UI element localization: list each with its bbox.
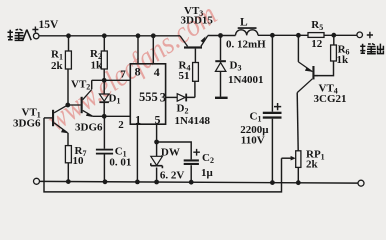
node pin4 top <box>151 33 156 38</box>
svg-text:1N4001: 1N4001 <box>228 74 263 86</box>
svg-text:1N4148: 1N4148 <box>175 115 211 127</box>
diode D1 <box>99 93 120 106</box>
svg-text:7: 7 <box>120 68 126 80</box>
wire R4 top lead <box>194 49 196 63</box>
capacitor C3 (0.01) <box>96 146 131 169</box>
diode D3 <box>215 60 263 87</box>
svg-text:L: L <box>240 17 248 29</box>
svg-text:51: 51 <box>179 70 190 82</box>
wire lower feedback rail <box>44 118 282 192</box>
resistor R1 <box>51 49 71 72</box>
wire R2 top lead <box>103 36 105 51</box>
node R6 top <box>331 33 336 38</box>
node R1 top <box>66 33 71 38</box>
svg-text:1k: 1k <box>337 54 350 66</box>
capacitor C2 <box>184 149 214 179</box>
svg-text:D2: D2 <box>177 103 189 116</box>
node VT4 emitter <box>296 33 301 38</box>
node DW gnd <box>154 180 159 185</box>
svg-text:6. 2V: 6. 2V <box>160 170 185 182</box>
svg-text:555: 555 <box>139 90 158 104</box>
diode D2 <box>175 94 211 127</box>
wire RP1 bottom lead <box>297 167 299 182</box>
svg-text:3CG21: 3CG21 <box>314 93 347 105</box>
wire VT4 emitter lead <box>297 35 299 62</box>
node pin1 gnd <box>135 180 140 185</box>
svg-text:10: 10 <box>73 155 85 167</box>
input terminal + <box>33 33 39 39</box>
svg-text:0. 12mH: 0. 12mH <box>226 39 266 51</box>
node R2 top <box>102 33 107 38</box>
node R7 gnd <box>66 179 71 184</box>
label + output <box>367 32 373 38</box>
svg-text:1μ: 1μ <box>201 167 214 179</box>
node pin2 <box>102 114 107 119</box>
wire RP1 wiper <box>282 157 293 159</box>
svg-text:C2: C2 <box>202 152 214 165</box>
svg-text:8: 8 <box>135 65 141 79</box>
resistor R6 <box>331 44 350 67</box>
wire pin2 node <box>93 115 131 117</box>
wire C3 leads <box>103 116 105 182</box>
wire R2 bottom lead <box>103 69 105 80</box>
wire C1 top lead <box>271 35 273 111</box>
wire VT1 emitter lead <box>67 133 69 146</box>
transistor VT2 <box>68 79 103 134</box>
svg-text:110V: 110V <box>241 135 265 147</box>
svg-text:C1: C1 <box>250 111 262 124</box>
svg-text:2k: 2k <box>51 60 64 72</box>
svg-text:D3: D3 <box>230 60 242 73</box>
svg-text:1k: 1k <box>91 59 104 71</box>
wire D1 leads <box>103 80 105 116</box>
wire 555 pin8 <box>137 36 139 64</box>
transistor VT3 <box>180 5 213 49</box>
wire R6 top lead <box>333 35 335 45</box>
wire 555 pin5 <box>156 124 158 142</box>
wire VT1 base <box>44 117 52 119</box>
transistor VT1 <box>13 105 68 133</box>
transistor VT4 <box>297 62 346 105</box>
wire bottom rail <box>40 181 358 183</box>
wire R7 bottom lead <box>67 163 69 182</box>
wire DW zener leads <box>156 142 158 182</box>
zener diode DW <box>151 147 185 182</box>
node DW top <box>154 140 159 145</box>
wire top rail left <box>39 35 180 37</box>
ground bar under D3 <box>215 97 228 99</box>
node C1 top <box>270 33 275 38</box>
wire top rail mid (VT3 emitter to coil) <box>208 35 236 37</box>
node RP1 gnd <box>296 180 301 185</box>
svg-text:4: 4 <box>154 65 160 79</box>
svg-text:3DG6: 3DG6 <box>75 122 103 134</box>
wire R1 top lead <box>68 36 70 51</box>
inductor L <box>226 17 266 51</box>
wire C2 bottom lead <box>190 165 192 182</box>
resistor R4 <box>179 60 199 83</box>
svg-text:12: 12 <box>311 38 323 50</box>
svg-text:DW: DW <box>161 147 180 159</box>
svg-text:R5: R5 <box>311 19 323 32</box>
wire top rail right <box>258 34 357 36</box>
node C1 gnd <box>270 180 275 185</box>
watermark <box>40 0 223 138</box>
resistor R7 <box>65 145 86 167</box>
svg-text:0. 01: 0. 01 <box>109 157 131 169</box>
op-amp U1 555 timer box <box>118 64 166 131</box>
wire VT4 collector to RP1 <box>297 93 298 151</box>
svg-text:3DD15: 3DD15 <box>181 15 214 27</box>
resistor R5 <box>308 19 324 50</box>
wire R1 bottom lead <box>67 69 69 105</box>
output terminal - <box>358 180 364 186</box>
wire pin7 node <box>92 80 131 89</box>
node VT2 base <box>65 103 70 108</box>
wire C1 bottom lead <box>271 119 273 183</box>
potentiometer RP1 <box>291 149 325 171</box>
node C2 gnd <box>189 180 194 185</box>
node D3 top <box>218 33 223 38</box>
wire 555 pin4 <box>152 36 154 64</box>
node pin8 top <box>136 33 141 38</box>
label 输出 (output) <box>360 44 383 54</box>
svg-text:3: 3 <box>160 91 166 105</box>
wire D3 bottom lead <box>220 71 222 96</box>
wire R6 bottom to VT4 base <box>315 61 334 76</box>
svg-text:5: 5 <box>155 113 161 127</box>
wire D3 top lead <box>220 36 222 61</box>
node C3 gnd <box>103 179 108 184</box>
wire 555 pin3 to D2 <box>166 96 178 98</box>
resistor R2 <box>90 48 107 72</box>
capacitor C1 electrolytic <box>240 103 281 147</box>
input terminal - <box>34 178 40 184</box>
label 输入 (input) <box>8 29 32 40</box>
wire D2 cathode to R4 <box>187 81 195 97</box>
svg-text:1: 1 <box>135 113 141 127</box>
svg-text:3DG6: 3DG6 <box>13 118 41 130</box>
svg-text:2: 2 <box>118 119 124 131</box>
svg-text:15V: 15V <box>39 19 60 31</box>
wire DW top node <box>157 142 192 159</box>
label + input <box>32 27 38 33</box>
node pin7 <box>102 78 107 83</box>
wire 555 pin1 <box>136 124 138 182</box>
svg-text:2k: 2k <box>306 159 319 171</box>
output terminal + <box>357 32 363 38</box>
